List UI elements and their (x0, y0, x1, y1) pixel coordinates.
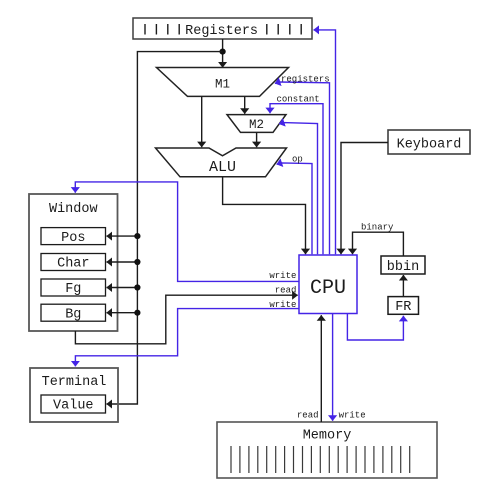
wire column to Bg (107, 312, 138, 314)
wire junction to display column (107, 52, 223, 404)
register Char (41, 254, 106, 272)
register Fg (41, 279, 106, 297)
fr box FR (388, 297, 419, 316)
wire column to Fg (107, 287, 138, 289)
svg-text:M2: M2 (249, 118, 264, 132)
memory cells ticks (231, 446, 410, 473)
wire Keyboard to CPU (341, 143, 388, 255)
register Value (41, 395, 106, 414)
cpu box CPU (299, 255, 357, 314)
node dot Fg (134, 284, 140, 290)
mux M2 (227, 115, 286, 133)
svg-text:Bg: Bg (65, 307, 81, 322)
mux M1 (157, 68, 289, 97)
svg-text:binary: binary (361, 223, 394, 233)
svg-text:CPU: CPU (310, 277, 346, 300)
wire Registers to M1 (222, 39, 224, 68)
wire column to Char (107, 261, 138, 263)
wire ALU output to CPU (223, 177, 306, 254)
svg-text:FR: FR (395, 300, 411, 315)
wire Window read to CPU (75, 295, 297, 344)
wire column to Pos (107, 235, 138, 237)
register Bg (41, 304, 106, 322)
wire M2 select CPU to M2 (blue) (279, 123, 318, 255)
wire M1 left output to ALU (201, 96, 203, 147)
wire constant CPU to M2 top (blue) (270, 104, 323, 255)
wire registers CPU to M1 (blue) (275, 82, 330, 254)
wire Memory read to CPU (320, 315, 322, 422)
wire M1 right output to M2 (244, 96, 246, 113)
svg-text:read: read (297, 411, 319, 421)
svg-text:Registers: Registers (185, 24, 258, 39)
svg-text:bbin: bbin (387, 260, 419, 275)
node dot Bg (134, 310, 140, 316)
svg-text:Keyboard: Keyboard (397, 137, 462, 152)
node junction dot on Registers output (220, 49, 226, 55)
svg-text:op: op (292, 155, 303, 165)
wire CPU write to Window (blue) (75, 182, 299, 282)
svg-text:Char: Char (57, 257, 89, 272)
wire M2 output to ALU (256, 132, 258, 147)
svg-text:write: write (339, 411, 366, 421)
svg-text:write: write (269, 271, 296, 281)
wire op CPU to ALU (blue) (277, 163, 312, 254)
wire writeback CPU to Registers (blue) (314, 30, 336, 254)
wire CPU to FR (blue) (347, 314, 403, 341)
wire CPU write to Memory (blue) (332, 314, 334, 421)
svg-text:ALU: ALU (209, 159, 236, 176)
wire FR to bbin (402, 275, 404, 297)
wire CPU write to Terminal (blue) (75, 309, 299, 367)
svg-text:constant: constant (277, 95, 320, 105)
svg-text:Fg: Fg (65, 282, 81, 297)
node dot Char (134, 259, 140, 265)
svg-text:Window: Window (49, 202, 98, 217)
svg-text:read: read (275, 285, 297, 295)
alu ALU (156, 148, 287, 177)
bbin box (381, 256, 425, 275)
terminal box (30, 368, 118, 422)
register Pos (41, 228, 106, 246)
wire binary bbin to CPU (353, 232, 404, 256)
svg-text:Value: Value (53, 399, 94, 414)
svg-text:Terminal: Terminal (42, 375, 107, 390)
svg-text:Pos: Pos (61, 231, 85, 246)
node dot Pos (134, 233, 140, 239)
registers box REG (133, 18, 312, 39)
window box (29, 194, 118, 331)
svg-text:Memory: Memory (303, 429, 352, 444)
memory box (217, 422, 437, 478)
svg-text:M1: M1 (215, 78, 230, 92)
svg-text:registers: registers (281, 75, 330, 85)
svg-text:write: write (269, 300, 296, 310)
keyboard box (388, 130, 470, 154)
